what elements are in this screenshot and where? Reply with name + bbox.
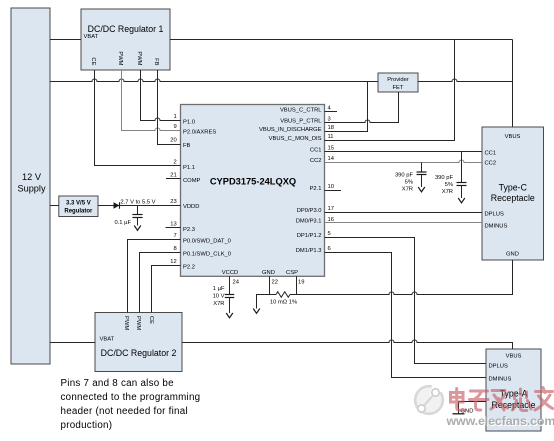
svg-text:Receptacle: Receptacle	[491, 193, 535, 203]
svg-text:2.7 V to 5.5 V: 2.7 V to 5.5 V	[120, 200, 155, 206]
svg-text:Type-C: Type-C	[499, 183, 528, 193]
pin numbers bottom	[233, 280, 305, 286]
svg-text:DP0/P3.0: DP0/P3.0	[297, 208, 322, 214]
svg-text:VBUS_P_CTRL: VBUS_P_CTRL	[280, 119, 322, 125]
svg-text:PWM: PWM	[135, 316, 141, 330]
svg-text:Pins 7 and 8 can also be: Pins 7 and 8 can also be	[61, 378, 175, 389]
wire vertical to Type-C VBUS	[512, 40, 514, 128]
ground branch left of GND	[257, 295, 277, 309]
svg-text:CE: CE	[90, 57, 96, 65]
svg-text:15: 15	[328, 146, 334, 152]
svg-text:390 pF: 390 pF	[435, 175, 454, 181]
watermark red text	[451, 388, 553, 411]
svg-text:PWM: PWM	[123, 316, 129, 330]
3.3V/5V regulator U4	[59, 196, 98, 217]
svg-text:8: 8	[173, 246, 176, 252]
pin numbers left side	[170, 114, 176, 265]
ground bar Type-A	[453, 409, 474, 415]
svg-text:PWM: PWM	[117, 51, 123, 65]
svg-text:DC/DC Regulator 1: DC/DC Regulator 1	[88, 24, 164, 34]
svg-text:DM0/P3.1: DM0/P3.1	[296, 219, 322, 225]
svg-text:VBUS_IN_DISCHARGE: VBUS_IN_DISCHARGE	[259, 127, 322, 133]
wire CC2 pin14 to Type-C CC2 (gray) with hop	[325, 160, 483, 163]
svg-text:P0.0/SWD_DAT_0: P0.0/SWD_DAT_0	[183, 238, 231, 244]
svg-text:22: 22	[272, 280, 278, 286]
IC pin labels right	[259, 108, 322, 255]
svg-text:connected to the programming: connected to the programming	[61, 392, 201, 403]
svg-text:12: 12	[170, 259, 176, 265]
svg-text:X7R: X7R	[442, 189, 453, 195]
wire supply to 3.3V regulator	[50, 205, 59, 207]
wire DP0/P3.0 pin17 to Type-C DPLUS	[325, 212, 483, 214]
stub COMP pin21	[166, 178, 181, 180]
svg-text:23: 23	[170, 199, 176, 205]
svg-text:Regulator: Regulator	[64, 209, 93, 215]
svg-text:PWM: PWM	[136, 51, 142, 65]
svg-text:Provider: Provider	[387, 77, 409, 83]
resistor R1 10 mOhm shunt	[276, 292, 290, 298]
op IC U1 CYPD3175-24LQXQ	[181, 105, 325, 277]
svg-text:DM1/P1.3: DM1/P1.3	[296, 248, 322, 254]
svg-text:CSP: CSP	[286, 270, 298, 276]
svg-text:P2.0/AXRES: P2.0/AXRES	[183, 129, 216, 135]
svg-text:VBUS_C_MON_DIS: VBUS_C_MON_DIS	[269, 136, 322, 142]
svg-text:VBAT: VBAT	[84, 34, 99, 40]
ground arrow under GND	[253, 309, 260, 314]
wire DM0/P3.1 pin16 to Type-C DMINUS (gray)	[325, 222, 483, 224]
svg-text:24: 24	[233, 280, 240, 286]
svg-text:7: 7	[173, 233, 176, 239]
wire reg2 VBAT out to Type-A VBUS with hops	[182, 340, 513, 349]
svg-text:5%: 5%	[445, 182, 453, 188]
wire P0.1/SWD_CLK_0 pin8 to reg2 PWM	[140, 253, 181, 313]
svg-text:0.1 µF: 0.1 µF	[114, 220, 131, 226]
stub P2.3 pin13	[166, 227, 181, 229]
svg-text:19: 19	[298, 280, 304, 286]
svg-text:4: 4	[328, 106, 332, 112]
wire shunt node to Type-C GND with hops	[290, 260, 513, 295]
svg-text:Supply: Supply	[17, 183, 45, 193]
note text pins 7 and 8	[61, 378, 201, 431]
svg-text:P2.2: P2.2	[183, 264, 195, 270]
svg-text:12 V: 12 V	[22, 172, 42, 182]
wire supply to reg1 VBAT	[50, 39, 81, 41]
svg-text:CYPD3175-24LQXQ: CYPD3175-24LQXQ	[210, 177, 296, 187]
svg-text:X7R: X7R	[402, 187, 413, 193]
diode D1 on VDDD line	[114, 202, 120, 209]
IC pin labels bottom	[222, 270, 298, 276]
Provider FET Q1	[378, 73, 418, 92]
wire GND pin22 down	[269, 276, 271, 294]
svg-text:VBUS_C_CTRL: VBUS_C_CTRL	[280, 108, 322, 114]
pin numbers right side	[328, 106, 335, 253]
wire Type-A GND	[459, 402, 487, 414]
wire supply to reg2 VBAT	[50, 342, 95, 344]
svg-text:FB: FB	[183, 143, 191, 149]
wire FB to FB pin20	[158, 70, 181, 145]
wire VBUS_IN_DISCHARGE pin18 up to FET input	[325, 82, 368, 132]
12 V supply block	[11, 8, 50, 364]
svg-text:VBUS: VBUS	[505, 134, 521, 140]
wire PWM to P1.0 pin1	[141, 70, 181, 121]
svg-text:13: 13	[170, 222, 176, 228]
wire CE to P1.1 pin2	[95, 70, 181, 166]
svg-text:10: 10	[328, 184, 334, 190]
svg-text:VCCD: VCCD	[222, 270, 238, 276]
watermark logo elecfans	[415, 383, 444, 414]
svg-text:DC/DC Regulator 2: DC/DC Regulator 2	[101, 348, 177, 358]
wire VBUS_P_CTRL pin3 to FET gate	[325, 92, 399, 123]
svg-text:5%: 5%	[405, 180, 413, 186]
svg-text:16: 16	[328, 217, 334, 223]
svg-text:10 mΩ 1%: 10 mΩ 1%	[270, 300, 297, 306]
svg-text:DPLUS: DPLUS	[485, 212, 504, 218]
svg-text:production): production)	[61, 420, 113, 431]
svg-text:VBUS: VBUS	[506, 354, 522, 360]
svg-text:18: 18	[328, 125, 334, 131]
svg-text:FB: FB	[153, 58, 159, 66]
capacitor C1 1uF under VCCD	[213, 276, 235, 318]
svg-text:GND: GND	[506, 252, 519, 258]
svg-text:CC1: CC1	[485, 151, 497, 157]
wire supply to Provider FET input, hops over reg1 pins	[50, 79, 378, 82]
svg-text:GND: GND	[262, 270, 275, 276]
svg-text:P1.1: P1.1	[183, 165, 195, 171]
wire PWM to P2.0/AXRES pin9 (gray)	[122, 70, 181, 131]
capacitor C4 0.1uF	[114, 206, 142, 231]
svg-text:VBAT: VBAT	[100, 337, 115, 343]
svg-text:P0.1/SWD_CLK_0: P0.1/SWD_CLK_0	[183, 251, 231, 257]
svg-text:P2.1: P2.1	[310, 186, 322, 192]
svg-text:header (not needed for final: header (not needed for final	[61, 406, 188, 417]
svg-text:CC1: CC1	[310, 148, 322, 154]
capacitor C2 390pF on CC2	[395, 163, 427, 193]
svg-text:11: 11	[328, 134, 334, 140]
svg-text:FET: FET	[393, 85, 404, 91]
svg-text:2: 2	[173, 160, 176, 166]
DC/DC Regulator 1 U2	[81, 9, 170, 70]
svg-text:390 pF: 390 pF	[395, 173, 414, 179]
svg-text:3.3 V/5 V: 3.3 V/5 V	[66, 201, 91, 207]
wire VBUS_C_MON_DIS pin11 up to VBUS node	[325, 40, 455, 141]
wire DP1/P1.2 pin5 to Type-A DPLUS	[325, 238, 487, 364]
wire 3.3V regulator to VDDD pin23	[98, 205, 181, 207]
svg-text:P1.0: P1.0	[183, 119, 195, 125]
svg-text:9: 9	[173, 124, 176, 130]
wire CC1 pin15 to Type-C CC1	[325, 151, 483, 153]
wire CSP pin19 down	[296, 276, 298, 294]
wire FET output to VBUS node, hop at x=454	[418, 79, 513, 82]
svg-text:DMINUS: DMINUS	[489, 377, 512, 383]
stub P2.1 pin10	[325, 190, 342, 192]
svg-text:10 V: 10 V	[213, 294, 225, 300]
svg-text:21: 21	[170, 173, 176, 179]
capacitor C3 390pF on CC1	[435, 152, 467, 203]
svg-text:CC2: CC2	[310, 158, 322, 164]
svg-text:DMINUS: DMINUS	[485, 224, 508, 230]
svg-text:VDDD: VDDD	[183, 204, 199, 210]
svg-text:CE: CE	[148, 316, 154, 324]
svg-text:14: 14	[328, 156, 335, 162]
svg-text:DP1/P1.2: DP1/P1.2	[297, 233, 322, 239]
svg-text:17: 17	[328, 206, 334, 212]
svg-text:P2.3: P2.3	[183, 227, 195, 233]
svg-text:CC2: CC2	[485, 160, 497, 166]
svg-text:20: 20	[170, 138, 176, 144]
DC/DC Regulator 2 U3	[95, 313, 182, 372]
stub VBUS_C_CTRL pin4	[325, 111, 338, 113]
svg-text:5: 5	[328, 231, 331, 237]
svg-text:DPLUS: DPLUS	[489, 364, 508, 370]
svg-text:1: 1	[173, 114, 176, 120]
wire P2.2 pin12 to reg2 CE	[152, 266, 181, 313]
svg-text:6: 6	[328, 246, 331, 252]
svg-text:COMP: COMP	[183, 178, 201, 184]
svg-text:X7R: X7R	[213, 301, 224, 307]
wire P0.0/SWD_DAT_0 pin7 to reg2 PWM	[128, 240, 181, 313]
svg-text:3: 3	[328, 117, 331, 123]
wire DM1/P1.3 pin6 to Type-A DMINUS	[325, 253, 487, 378]
Type-C receptacle J1	[482, 127, 544, 260]
IC pin labels left	[183, 119, 231, 270]
svg-text:www.elecfans.com: www.elecfans.com	[446, 414, 554, 428]
svg-text:1 µF: 1 µF	[213, 286, 225, 292]
Type-A receptacle J2	[486, 349, 541, 431]
wire reg1 VBAT out to top right	[170, 39, 513, 41]
